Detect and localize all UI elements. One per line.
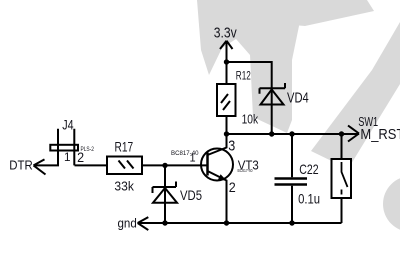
svg-text:3.3v: 3.3v xyxy=(214,24,237,41)
svg-text:DTR: DTR xyxy=(9,158,33,172)
svg-text:1: 1 xyxy=(64,151,71,164)
svg-text:R17: R17 xyxy=(115,139,134,154)
svg-text:BC817-40: BC817-40 xyxy=(238,168,253,173)
svg-text:33k: 33k xyxy=(114,179,134,194)
svg-text:3: 3 xyxy=(228,138,235,155)
svg-text:2: 2 xyxy=(229,180,236,195)
svg-text:gnd: gnd xyxy=(118,216,137,230)
svg-text:VD4: VD4 xyxy=(287,90,309,107)
svg-text:BC817-40: BC817-40 xyxy=(171,151,199,157)
svg-text:J4: J4 xyxy=(62,116,73,132)
svg-text:C22: C22 xyxy=(299,161,318,177)
svg-text:VD5: VD5 xyxy=(180,188,202,203)
svg-text:10k: 10k xyxy=(242,112,259,127)
svg-text:R12: R12 xyxy=(236,69,251,83)
svg-text:M_RST: M_RST xyxy=(360,127,400,143)
svg-text:0.1u: 0.1u xyxy=(298,191,320,206)
svg-text:PLS-2: PLS-2 xyxy=(81,147,95,153)
